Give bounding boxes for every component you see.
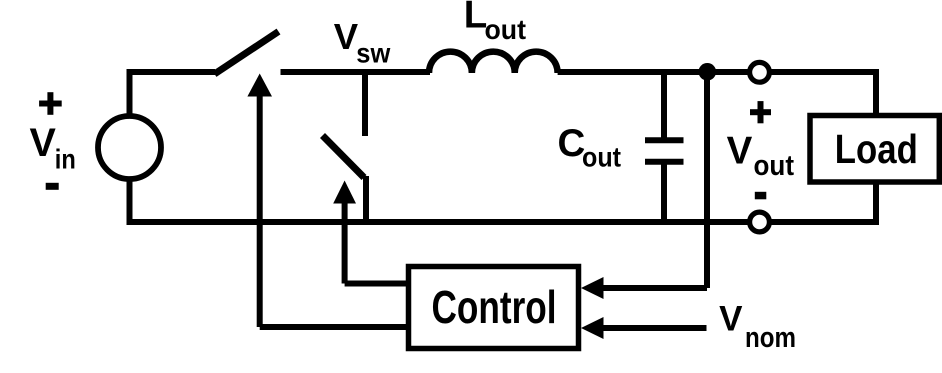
- svg-text:Load: Load: [835, 126, 918, 172]
- svg-text:in: in: [55, 144, 76, 175]
- svg-text:out: out: [485, 14, 527, 45]
- svg-text:V: V: [334, 16, 359, 57]
- svg-text:sw: sw: [356, 38, 390, 69]
- svg-text:V: V: [30, 121, 57, 165]
- svg-text:V: V: [719, 299, 743, 338]
- svg-text:out: out: [754, 150, 795, 182]
- svg-text:nom: nom: [745, 322, 796, 354]
- svg-text:out: out: [582, 142, 621, 173]
- svg-text:V: V: [727, 130, 753, 173]
- svg-text:Control: Control: [432, 281, 557, 333]
